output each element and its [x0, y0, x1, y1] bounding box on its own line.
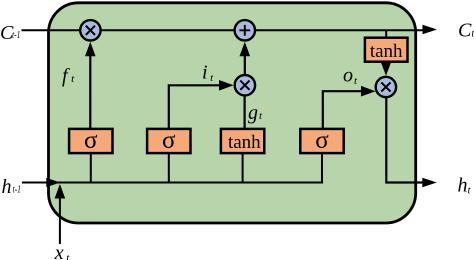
svg-text:tanh: tanh	[370, 41, 403, 62]
add node	[235, 20, 255, 40]
wire sigma3 to h corner	[321, 152, 323, 184]
arrow tanh2 into multiply3	[381, 62, 392, 76]
svg-text:t-1: t-1	[12, 29, 21, 41]
multiply node 2	[235, 75, 255, 95]
wire multiply3 to h out	[386, 97, 424, 183]
tanh box top right	[365, 38, 408, 62]
sigma gate box 2	[147, 129, 190, 153]
svg-text:σ: σ	[162, 127, 176, 154]
arrow h out	[422, 178, 437, 188]
multiply node 1	[80, 20, 100, 40]
svg-text:xt: xt	[54, 242, 70, 260]
svg-text:t-1: t-1	[13, 184, 22, 196]
svg-text:Ct: Ct	[458, 20, 474, 42]
wire o_t path	[323, 91, 362, 129]
sigma gate box 1	[69, 129, 112, 153]
wire h internal	[48, 182, 324, 184]
arrow C out	[423, 25, 438, 35]
wire sigma1 to h	[90, 152, 92, 183]
wire f_t vertical	[89, 56, 91, 130]
wire multiply2 to add	[244, 55, 246, 75]
wire i_t path	[169, 85, 221, 129]
arrow f_t into multiply1	[85, 42, 96, 57]
wire tanh1 to h	[242, 152, 244, 183]
wire h in	[22, 182, 48, 184]
wire C to tanh2 stub	[385, 30, 387, 38]
arrow i_t into multiply2	[219, 80, 234, 91]
wire g_t vertical	[244, 96, 246, 130]
tanh gate box 1	[221, 129, 264, 153]
arrow o_t into multiply3	[361, 86, 376, 97]
sigma gate box 3	[300, 129, 343, 153]
svg-text:h: h	[2, 176, 12, 198]
arrow h in	[46, 178, 60, 187]
wire C horizontal	[22, 29, 425, 31]
svg-text:σ: σ	[84, 127, 98, 154]
multiply node 3	[376, 77, 396, 97]
arrow x_t	[55, 184, 66, 199]
svg-text:tanh: tanh	[228, 132, 261, 153]
LSTM cell body	[49, 3, 416, 223]
arrow into add	[240, 42, 251, 57]
wire x_t vertical	[59, 197, 61, 244]
wire sigma2 to h	[168, 152, 170, 183]
svg-text:ht: ht	[458, 175, 472, 197]
svg-text:σ: σ	[315, 127, 329, 154]
